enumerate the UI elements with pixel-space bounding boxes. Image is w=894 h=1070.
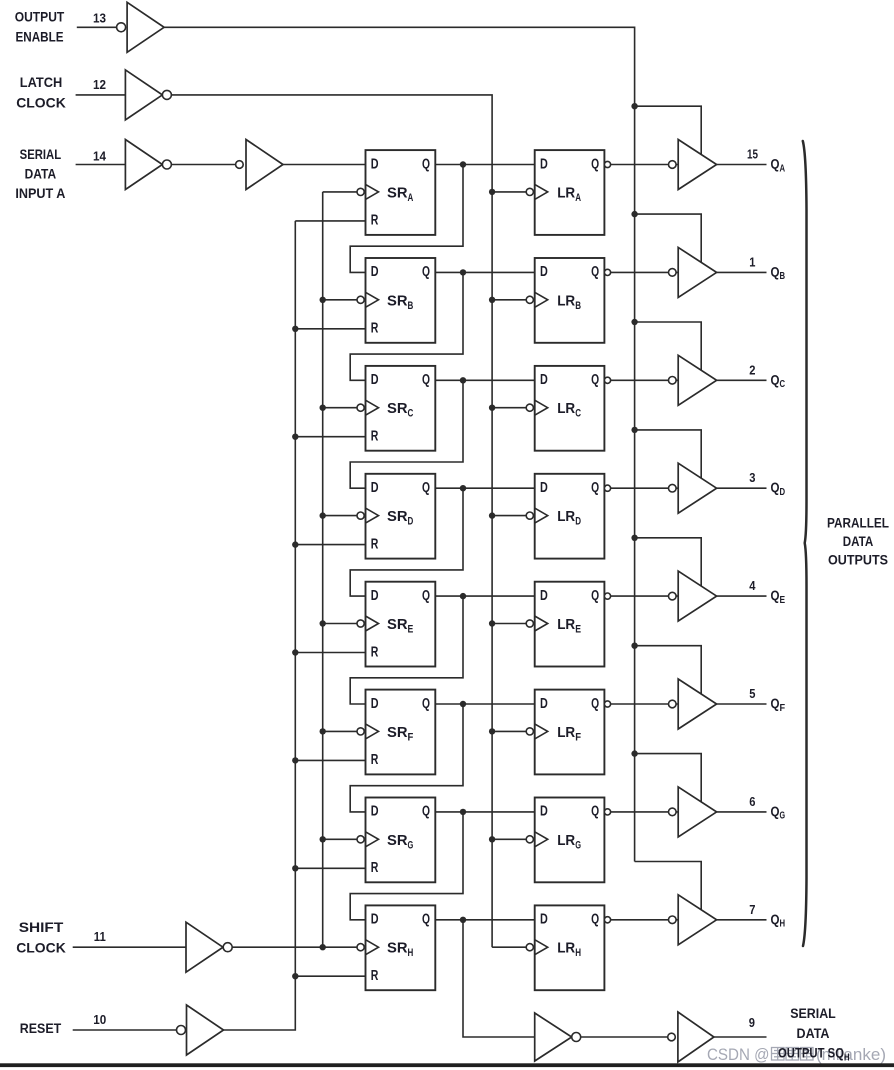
output bubble LRA Q	[604, 161, 610, 167]
svg-text:QF: QF	[771, 695, 786, 714]
junction on reset bus row F	[292, 757, 298, 763]
svg-text:OUTPUTS: OUTPUTS	[828, 553, 888, 568]
svg-text:DATA: DATA	[843, 534, 874, 549]
svg-text:QH: QH	[771, 911, 786, 930]
inverter U2 (latch clock)	[125, 70, 162, 120]
svg-text:Q: Q	[422, 480, 430, 496]
wire: output QF	[717, 703, 767, 705]
svg-text:QE: QE	[771, 587, 786, 606]
wire: reset tap SRA R	[295, 220, 365, 222]
junction on shift-clock bus row D	[320, 512, 326, 518]
svg-text:Q: Q	[422, 264, 430, 280]
svg-text:14: 14	[93, 148, 107, 163]
flip-flop SRA	[366, 150, 436, 235]
pin 7 label	[749, 902, 755, 917]
wire: latch clock tap LRH	[492, 946, 530, 948]
junction node QA (shift stage)	[460, 161, 466, 167]
pin 13 label	[93, 10, 106, 25]
wire: output QA	[717, 164, 767, 166]
flip-flop SRG	[366, 798, 436, 883]
wire: reset tap SRE R	[295, 652, 365, 654]
wire: LRG Q to output buffer	[611, 811, 679, 813]
junction on latch-clock bus row F	[489, 728, 495, 734]
wire: latch clock tap LRC	[492, 407, 530, 409]
svg-text:6: 6	[749, 794, 755, 809]
svg-text:Q: Q	[422, 372, 430, 388]
svg-text:12: 12	[93, 77, 106, 92]
buffer input bubble row A	[669, 161, 677, 169]
wire: shift clock tap SRF	[323, 730, 365, 732]
bottom border bar	[0, 1063, 894, 1067]
tri-state output buffer U13 (row G)	[678, 787, 716, 837]
flip-flop SRH	[366, 905, 436, 990]
output label QC	[771, 371, 786, 390]
buffer input bubble row F	[669, 700, 677, 708]
junction: shift-clock bus at SR_H	[320, 944, 326, 950]
wire: reset tap SRG R	[295, 867, 365, 869]
wire: SRE Q to LRE D	[435, 595, 534, 597]
watermark CSDN	[707, 1045, 886, 1064]
svg-text:R: R	[371, 536, 379, 552]
wire: latch clock tap LRF	[492, 730, 530, 732]
latch LRG	[535, 798, 605, 883]
wire: SRF Q feedback to SRG D	[350, 704, 463, 812]
wire: output QH	[717, 919, 767, 921]
wire: output-enable net (horizontal + vertical bus)	[164, 27, 634, 861]
output bubble LRH Q	[604, 917, 610, 923]
clock bubble LRH	[526, 944, 533, 951]
svg-text:QA: QA	[771, 156, 786, 175]
junction on latch-clock bus row E	[489, 620, 495, 626]
svg-text:OUTPUT: OUTPUT	[15, 9, 65, 25]
junction on reset bus row G	[292, 865, 298, 871]
clock bubble LRE	[526, 620, 533, 627]
svg-text:SERIAL: SERIAL	[790, 1005, 836, 1021]
wire: output QG	[717, 811, 767, 813]
junction node QD (shift stage)	[460, 485, 466, 491]
svg-text:SHIFT: SHIFT	[19, 919, 64, 935]
svg-text:13: 13	[93, 10, 106, 25]
wire: LRC Q to output buffer	[611, 379, 679, 381]
output bubble LRE Q	[604, 593, 610, 599]
junction on OE bus row D	[631, 427, 637, 433]
svg-text:R: R	[371, 429, 379, 445]
wire: shift clock tap SRB	[323, 299, 365, 301]
pin 12 label	[93, 77, 106, 92]
junction on latch-clock bus row A	[489, 189, 495, 195]
output label QB	[771, 263, 786, 282]
latch LRD	[535, 474, 605, 559]
wire: SR_H Q to serial output	[463, 920, 535, 1037]
wire: SERIAL DATA input	[76, 164, 126, 166]
flip-flop SRF	[366, 690, 436, 775]
svg-text:2: 2	[749, 362, 755, 377]
svg-text:OUTPUT SQH: OUTPUT SQH	[778, 1045, 850, 1064]
svg-text:Q: Q	[591, 480, 599, 496]
latch LRF	[535, 690, 605, 775]
wire: SRG Q to LRG D	[435, 811, 534, 813]
svg-text:Q: Q	[422, 912, 430, 928]
svg-text:QD: QD	[771, 479, 786, 498]
clock bubble SRC	[357, 404, 364, 411]
pin 15 label	[747, 147, 758, 162]
wire: SRH Q to LRH D	[435, 919, 534, 921]
svg-text:CLOCK: CLOCK	[16, 94, 66, 110]
wire: output QB	[717, 271, 767, 273]
wire: shift clock tap SRD	[323, 515, 365, 517]
svg-text:ENABLE: ENABLE	[16, 29, 64, 45]
pin 9 label	[749, 1015, 755, 1030]
junction on latch-clock bus row G	[489, 836, 495, 842]
junction node QB (shift stage)	[460, 269, 466, 275]
clock bubble LRB	[526, 296, 533, 303]
junction on shift-clock bus row C	[320, 405, 326, 411]
svg-text:D: D	[540, 480, 548, 496]
svg-text:PARALLEL: PARALLEL	[827, 516, 889, 531]
svg-text:SERIAL: SERIAL	[20, 146, 62, 162]
svg-text:D: D	[371, 372, 379, 388]
flip-flop SRD	[366, 474, 436, 559]
inverter U6 input bubble	[177, 1026, 186, 1035]
wire: RESET input	[73, 1029, 177, 1031]
latch LRA	[535, 150, 605, 235]
latch LRB	[535, 258, 605, 343]
pin 3 label	[749, 470, 755, 485]
wire: SRB Q to LRB D	[435, 271, 534, 273]
input label RESET	[20, 1020, 62, 1036]
wire: enable tap row A	[635, 106, 702, 154]
wire: latch clock tap LRD	[492, 515, 530, 517]
junction on reset bus row D	[292, 541, 298, 547]
wire: SRD Q feedback to SRE D	[350, 488, 463, 596]
wire: enable tap row D	[635, 430, 702, 478]
junction on shift-clock bus row G	[320, 836, 326, 842]
svg-text:3: 3	[749, 470, 755, 485]
junction on OE bus row A	[631, 103, 637, 109]
latch LRC	[535, 366, 605, 451]
clock bubble SRF	[357, 728, 364, 735]
inverter U6 (reset)	[187, 1005, 224, 1055]
input label SHIFT CLOCK	[16, 919, 66, 956]
wire: latch-clock net (horizontal + vertical bus)	[171, 95, 492, 947]
wire: SRF Q to LRF D	[435, 703, 534, 705]
svg-text:R: R	[371, 860, 379, 876]
junction on OE bus row E	[631, 535, 637, 541]
svg-text:D: D	[371, 912, 379, 928]
junction on shift-clock bus row E	[320, 620, 326, 626]
clock bubble SRD	[357, 512, 364, 519]
svg-text:Q: Q	[422, 696, 430, 712]
svg-text:Q: Q	[591, 372, 599, 388]
wire: latch clock tap LRA	[492, 191, 530, 193]
inverter U1 input bubble	[117, 23, 126, 32]
flip-flop SRB	[366, 258, 436, 343]
input label SERIAL DATA INPUT A	[15, 146, 65, 201]
wire: enable tap row E	[635, 538, 702, 586]
wire: output QD	[717, 487, 767, 489]
svg-text:D: D	[371, 804, 379, 820]
svg-text:R: R	[371, 213, 379, 229]
wire: SRC Q to LRC D	[435, 379, 534, 381]
svg-text:Q: Q	[422, 156, 430, 172]
svg-text:D: D	[540, 804, 548, 820]
clock bubble SRA	[357, 188, 364, 195]
junction node QH (shift stage)	[460, 917, 466, 923]
wire: enable tap row B	[635, 214, 702, 262]
wire: LRB Q to output buffer	[611, 271, 679, 273]
svg-text:D: D	[540, 156, 548, 172]
svg-text:Q: Q	[591, 912, 599, 928]
brace: parallel data outputs group	[803, 141, 807, 946]
wire: SRC Q feedback to SRD D	[350, 380, 463, 488]
svg-text:R: R	[371, 752, 379, 768]
pin 2 label	[749, 362, 755, 377]
svg-text:1: 1	[749, 254, 755, 269]
wire: SRG Q feedback to SRH D	[350, 812, 463, 920]
buffer input bubble row C	[669, 377, 677, 385]
wire: SRA Q feedback to SRB D	[350, 165, 463, 273]
clock bubble SRB	[357, 296, 364, 303]
svg-text:R: R	[371, 321, 379, 337]
wire: enable tap row C	[635, 322, 702, 370]
junction node QG (shift stage)	[460, 809, 466, 815]
svg-text:DATA: DATA	[25, 166, 57, 182]
pin 5 label	[749, 686, 755, 701]
svg-text:QC: QC	[771, 371, 786, 390]
tri-state output buffer U9 (row C)	[678, 355, 716, 405]
svg-text:D: D	[371, 480, 379, 496]
clock bubble LRF	[526, 728, 533, 735]
wire: LRE Q to output buffer	[611, 595, 679, 597]
wire: shift clock tap SRG	[323, 838, 365, 840]
wire: reset tap SRH R	[295, 975, 365, 977]
wire: U5 to SR_H clock	[232, 946, 364, 948]
wire: shift clock tap SRA	[323, 191, 365, 193]
wire: shift clock tap SRC	[323, 407, 365, 409]
wire: reset tap SRD R	[295, 544, 365, 546]
inverter U15 (serial data out stage 1)	[535, 1013, 572, 1061]
svg-text:Q: Q	[591, 588, 599, 604]
svg-text:D: D	[540, 264, 548, 280]
wire: SRB Q feedback to SRC D	[350, 272, 463, 380]
output bubble LRB Q	[604, 269, 610, 275]
output bubble LRF Q	[604, 701, 610, 707]
inverter U15 output bubble	[572, 1033, 581, 1042]
output label SERIAL DATA OUTPUT SQH	[778, 1005, 850, 1063]
svg-text:INPUT A: INPUT A	[15, 185, 65, 201]
svg-text:Q: Q	[422, 804, 430, 820]
wire: latch clock tap LRB	[492, 299, 530, 301]
wire: LATCH CLOCK input	[76, 94, 126, 96]
wire: U3 to U4	[171, 164, 235, 166]
wire: enable tap row F	[635, 646, 702, 694]
svg-text:DATA: DATA	[797, 1025, 830, 1041]
tri-state output buffer U8 (row B)	[678, 247, 716, 297]
svg-text:4: 4	[749, 578, 756, 593]
wire: LRA Q to output buffer	[611, 164, 679, 166]
clock bubble LRD	[526, 512, 533, 519]
svg-text:5: 5	[749, 686, 755, 701]
output label QG	[771, 803, 786, 822]
inverter U2 output bubble	[162, 90, 171, 99]
wire: enable tap row H	[635, 862, 702, 910]
svg-text:LATCH: LATCH	[20, 74, 63, 90]
junction node QF (shift stage)	[460, 701, 466, 707]
junction node QC (shift stage)	[460, 377, 466, 383]
junction on reset bus row C	[292, 434, 298, 440]
svg-text:CSDN @: CSDN @	[707, 1045, 770, 1064]
wire: enable tap row G	[635, 754, 702, 802]
clock bubble LRG	[526, 836, 533, 843]
buffer input bubble row H	[669, 916, 677, 924]
inverter U1 (output enable)	[127, 2, 164, 52]
svg-text:Q: Q	[591, 156, 599, 172]
clock bubble LRA	[526, 188, 533, 195]
tri-state output buffer U12 (row F)	[678, 679, 716, 729]
wire: shift-clock vertical bus	[322, 192, 324, 947]
wire: serial data output pin 9	[714, 1036, 767, 1038]
svg-text:10: 10	[93, 1012, 106, 1027]
output label QE	[771, 587, 786, 606]
junction on OE bus row G	[631, 750, 637, 756]
wire: OUTPUT ENABLE input	[77, 26, 117, 28]
junction on OE bus row F	[631, 643, 637, 649]
wire: LRH Q to output buffer	[611, 919, 679, 921]
svg-text:D: D	[371, 588, 379, 604]
clock bubble LRC	[526, 404, 533, 411]
svg-text:Q: Q	[422, 588, 430, 604]
inverter U3 (serial data, stage 1)	[125, 140, 162, 190]
svg-text:QB: QB	[771, 263, 786, 282]
junction on reset bus row E	[292, 649, 298, 655]
output label QA	[771, 156, 786, 175]
svg-text:D: D	[540, 372, 548, 388]
junction on latch-clock bus row D	[489, 512, 495, 518]
wire: shift clock tap SRE	[323, 623, 365, 625]
wire: U15 to U16	[581, 1036, 668, 1038]
svg-text:D: D	[371, 696, 379, 712]
junction on reset bus row B	[292, 326, 298, 332]
input label LATCH CLOCK	[16, 74, 66, 110]
wire: LRD Q to output buffer	[611, 487, 679, 489]
output bubble LRC Q	[604, 377, 610, 383]
output bubble LRD Q	[604, 485, 610, 491]
inverter U5 (shift clock)	[186, 922, 223, 972]
svg-text:RESET: RESET	[20, 1020, 62, 1036]
tri-state output buffer U14 (row H)	[678, 895, 716, 945]
svg-text:CLOCK: CLOCK	[16, 940, 66, 956]
junction on OE bus row C	[631, 319, 637, 325]
input label OUTPUT ENABLE	[15, 9, 65, 45]
junction on shift-clock bus row B	[320, 297, 326, 303]
svg-text:Q: Q	[591, 264, 599, 280]
pin 11 label	[94, 929, 106, 944]
wire: SRA Q to LRA D	[435, 164, 534, 166]
latch LRE	[535, 582, 605, 667]
junction on reset bus row H	[292, 973, 298, 979]
pin 4 label	[749, 578, 756, 593]
svg-text:D: D	[371, 264, 379, 280]
svg-text:QG: QG	[771, 803, 786, 822]
buffer input bubble row B	[669, 269, 677, 277]
inverter U4 input bubble	[236, 161, 244, 169]
output label QD	[771, 479, 786, 498]
wire: SRD Q to LRD D	[435, 487, 534, 489]
output label QF	[771, 695, 786, 714]
junction on shift-clock bus row F	[320, 728, 326, 734]
buffer input bubble row G	[669, 808, 677, 816]
output bubble LRG Q	[604, 809, 610, 815]
svg-text:D: D	[540, 696, 548, 712]
junction on latch-clock bus row B	[489, 297, 495, 303]
buffer U16 input bubble	[668, 1033, 676, 1041]
flip-flop SRC	[366, 366, 436, 451]
wire: reset net (horizontal + vertical bus)	[224, 221, 296, 1030]
svg-text:Q: Q	[591, 696, 599, 712]
output label QH	[771, 911, 786, 930]
wire: SRE Q feedback to SRF D	[350, 596, 463, 704]
svg-text:7: 7	[749, 902, 755, 917]
junction on OE bus row B	[631, 211, 637, 217]
pin 1 label	[749, 254, 755, 269]
svg-text:9: 9	[749, 1015, 755, 1030]
svg-text:R: R	[371, 644, 379, 660]
latch LRH	[535, 905, 605, 990]
label PARALLEL DATA OUTPUTS	[827, 516, 889, 568]
pin 6 label	[749, 794, 755, 809]
inverter U3 output bubble	[162, 160, 171, 169]
buffer U4 (serial data, stage 2)	[246, 140, 283, 190]
wire: latch clock tap LRE	[492, 623, 530, 625]
svg-text:D: D	[540, 912, 548, 928]
wire: reset tap SRC R	[295, 436, 365, 438]
buffer U16 (serial data out stage 2)	[678, 1012, 714, 1062]
pin 10 label	[93, 1012, 106, 1027]
wire: reset tap SRB R	[295, 328, 365, 330]
wire: LRF Q to output buffer	[611, 703, 679, 705]
tri-state output buffer U11 (row E)	[678, 571, 716, 621]
wire: reset tap SRF R	[295, 759, 365, 761]
junction on latch-clock bus row C	[489, 405, 495, 411]
clock bubble SRG	[357, 836, 364, 843]
clock bubble SRE	[357, 620, 364, 627]
wire: output QE	[717, 595, 767, 597]
tri-state output buffer U7 (row A)	[678, 140, 716, 190]
clock bubble SRH	[357, 944, 364, 951]
svg-text:11: 11	[94, 929, 106, 944]
svg-text:D: D	[540, 588, 548, 604]
svg-text:D: D	[371, 156, 379, 172]
inverter U5 output bubble	[223, 943, 232, 952]
wire: output QC	[717, 379, 767, 381]
junction node QE (shift stage)	[460, 593, 466, 599]
buffer input bubble row D	[669, 484, 677, 492]
wire: latch clock tap LRG	[492, 838, 530, 840]
svg-text:Q: Q	[591, 804, 599, 820]
buffer input bubble row E	[669, 592, 677, 600]
flip-flop SRE	[366, 582, 436, 667]
wire: U4 to SR_A D	[283, 164, 366, 166]
wire: SHIFT CLOCK input	[73, 946, 186, 948]
svg-text:15: 15	[747, 147, 758, 162]
pin 14 label	[93, 148, 107, 163]
tri-state output buffer U10 (row D)	[678, 463, 716, 513]
svg-text:R: R	[371, 968, 379, 984]
